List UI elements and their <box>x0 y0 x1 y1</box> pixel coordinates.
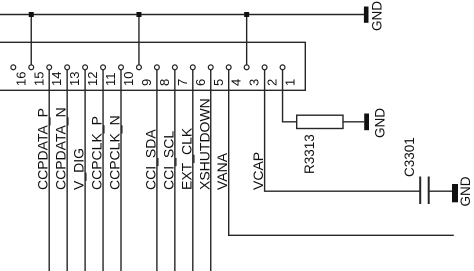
junction pin15/rail <box>29 12 34 17</box>
pin 13 circle <box>65 65 70 70</box>
ground bar top <box>364 7 369 23</box>
wire CCPCLK_P pin11 <box>102 70 104 271</box>
pin 1 circle <box>280 65 285 70</box>
pin 16 circle <box>11 65 16 70</box>
pin 10 circle <box>119 65 124 70</box>
pin 8 circle <box>155 65 160 70</box>
svg-text:XSHUTDOWN: XSHUTDOWN <box>196 98 212 190</box>
svg-text:C3301: C3301 <box>402 137 417 177</box>
wire V_DIG pin12 <box>84 70 86 271</box>
svg-text:4: 4 <box>229 79 244 86</box>
svg-text:GND: GND <box>458 176 473 206</box>
svg-text:6: 6 <box>193 79 208 86</box>
svg-text:15: 15 <box>31 72 46 86</box>
svg-text:CCPDATA_N: CCPDATA_N <box>53 107 69 190</box>
wire pin9 to rail <box>138 15 140 65</box>
wire CCPDATA_P pin14 <box>48 70 50 271</box>
pin 11 circle <box>101 65 106 70</box>
pin 7 circle <box>172 65 177 70</box>
svg-text:VANA: VANA <box>214 152 230 190</box>
wire pin15 to rail <box>30 15 32 65</box>
pin 15 circle <box>29 65 34 70</box>
svg-text:V_DIG: V_DIG <box>71 148 87 190</box>
pin 4 circle <box>226 65 231 70</box>
wire CCPCLK_N pin10 <box>120 70 122 271</box>
pin 14 circle <box>47 65 52 70</box>
svg-text:2: 2 <box>265 79 280 86</box>
svg-text:GND: GND <box>373 108 388 138</box>
capacitor C3301 plates <box>420 177 429 205</box>
wire C3301 to GND <box>429 190 452 192</box>
svg-text:16: 16 <box>13 72 28 86</box>
wire EXT_CLK pin6 <box>192 70 194 271</box>
svg-text:EXT_CLK: EXT_CLK <box>178 127 194 190</box>
junction pin9/rail <box>136 12 141 17</box>
svg-text:13: 13 <box>67 72 82 86</box>
svg-text:VCAP: VCAP <box>250 152 266 190</box>
junction pin3/rail <box>244 12 249 17</box>
svg-text:CCPCLK_P: CCPCLK_P <box>89 116 105 190</box>
svg-text:14: 14 <box>49 72 64 86</box>
wire GND top rail <box>0 14 364 16</box>
ground bar bottom (C3301) <box>452 184 458 202</box>
pin 2 circle <box>262 65 267 70</box>
pin 5 circle <box>208 65 213 70</box>
svg-text:3: 3 <box>247 79 262 86</box>
svg-text:CCPCLK_N: CCPCLK_N <box>107 115 123 190</box>
wire pin3 to rail <box>246 15 248 65</box>
svg-text:11: 11 <box>103 73 118 87</box>
wire R3313 to GND <box>343 121 364 123</box>
wire pin1 to R3313 <box>283 70 297 122</box>
wire VCAP pin2 to C3301 <box>265 70 421 191</box>
svg-text:8: 8 <box>157 79 172 86</box>
svg-text:9: 9 <box>139 79 154 86</box>
svg-text:1: 1 <box>283 79 298 86</box>
svg-text:GND: GND <box>370 1 385 31</box>
pin 12 circle <box>83 65 88 70</box>
connector U (16-pin) box <box>0 42 305 90</box>
pin 3 circle <box>244 65 249 70</box>
pin 6 circle <box>190 65 195 70</box>
wire VANA pin4 <box>229 70 454 235</box>
svg-text:CCI_SCL: CCI_SCL <box>160 131 176 190</box>
wire CCI_SCL pin7 <box>174 70 176 271</box>
svg-text:12: 12 <box>85 72 100 86</box>
svg-text:R3313: R3313 <box>302 134 317 174</box>
svg-text:7: 7 <box>175 79 190 86</box>
svg-text:CCPDATA_P: CCPDATA_P <box>35 108 51 190</box>
wire CCI_SDA pin8 <box>156 70 158 271</box>
wire CCPDATA_N pin13 <box>66 70 68 271</box>
wire XSHUTDOWN pin5 <box>210 70 212 271</box>
svg-text:10: 10 <box>121 72 136 86</box>
pin 9 circle <box>137 65 142 70</box>
svg-text:CCI_SDA: CCI_SDA <box>142 129 158 190</box>
resistor R3313 <box>297 115 343 128</box>
svg-text:5: 5 <box>211 79 226 86</box>
ground bar mid (R3313) <box>364 114 369 131</box>
